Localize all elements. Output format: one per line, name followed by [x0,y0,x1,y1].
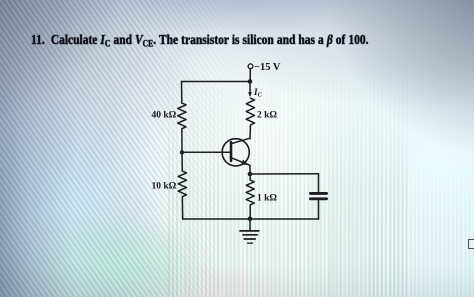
resistor R2 10k [178,171,186,200]
svg-text:IC: IC [253,87,263,99]
problem title text [31,32,420,48]
emitter arrowhead [242,160,249,165]
resistor R4 1k [246,180,254,207]
transistor Q1 circle [222,139,249,166]
svg-text:40 kΩ: 40 kΩ [152,111,177,121]
wire left branch lower [181,152,183,171]
wire base [182,151,230,153]
wire 40k to base node [181,132,183,153]
capacitor C1 plates [311,192,327,195]
wire left branch upper [181,82,183,104]
small bracket artifact right edge [468,239,474,249]
svg-text:−15 V: −15 V [254,62,281,73]
wire I_C segment with arrow [249,84,251,96]
wire 10k to bottom wire [181,200,183,220]
node emitter junction [248,172,253,177]
svg-text:10 kΩ: 10 kΩ [152,182,177,192]
resistor R3 2k [246,98,254,127]
wire emitter down [249,165,251,174]
node bottom junction [248,217,253,222]
node top junction [248,79,253,84]
wire terminal to top junction [249,69,251,82]
collector diagonal [231,138,250,143]
node base-left junction [180,150,184,154]
terminal -15V (open circle) [248,64,253,69]
wire bottom horizontal [183,218,319,220]
resistor R1 40k [178,103,186,132]
wire capacitor lower [318,200,320,219]
svg-text:2 kΩ: 2 kΩ [257,111,277,121]
ground [249,219,251,230]
wire capacitor upper [318,174,320,192]
wire 2k to collector [249,127,251,139]
wire top horizontal [182,81,251,83]
wire 1k top [249,174,251,180]
emitter diagonal [231,158,250,166]
svg-text:1 kΩ: 1 kΩ [257,194,277,204]
wire 1k to bottom [249,207,251,219]
wire emitter to capacitor branch [250,173,319,175]
transistor base bar [230,142,233,161]
